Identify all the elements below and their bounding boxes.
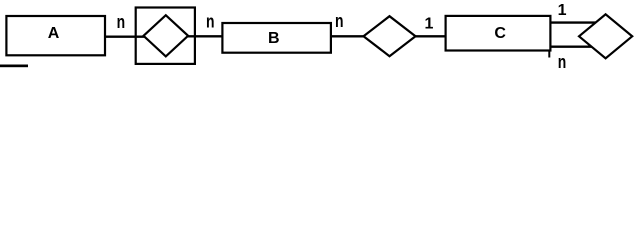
svg-text:A: A: [48, 25, 60, 42]
entity C: [446, 16, 551, 51]
svg-text:n: n: [558, 52, 567, 72]
svg-text:1: 1: [424, 15, 433, 32]
corner overshoot on entity C: [548, 51, 550, 58]
svg-text:B: B: [268, 30, 280, 47]
entity B: [222, 23, 331, 53]
wire B to R2: [331, 35, 364, 37]
relationship diamond R2: [364, 16, 416, 56]
relationship diamond R3 (recursive on C): [579, 14, 632, 58]
svg-text:C: C: [494, 25, 506, 42]
stray line bottom-left: [0, 65, 28, 68]
relationship diamond R1 (inside box): [144, 15, 189, 56]
svg-text:n: n: [335, 11, 344, 31]
entity A: [6, 16, 105, 55]
wire C to R3 (bottom): [550, 46, 595, 48]
wire A to R1: [105, 36, 145, 38]
wire C to R3 (top): [550, 21, 600, 23]
svg-text:n: n: [117, 12, 126, 32]
svg-text:n: n: [206, 12, 215, 32]
svg-text:1: 1: [558, 2, 567, 19]
wire R2 to C: [415, 35, 447, 37]
relationship box (around diamond R1): [136, 8, 195, 64]
wire R1 to B: [188, 35, 222, 37]
